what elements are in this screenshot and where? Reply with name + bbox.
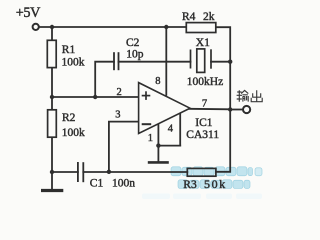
- svg-text:R1: R1: [62, 44, 76, 56]
- wire crystal right to rail: [211, 61, 230, 63]
- node pin2 C2: [93, 95, 97, 99]
- svg-text:+5V: +5V: [16, 5, 41, 21]
- capacitor C2: [114, 52, 119, 70]
- node ground left: [50, 170, 54, 174]
- svg-text:X1: X1: [196, 37, 210, 49]
- svg-text:C1: C1: [90, 177, 104, 189]
- wire right ground stem: [157, 146, 159, 162]
- watermark row 2: [178, 180, 250, 189]
- wire C2 to crystal (feedback node): [118, 61, 190, 63]
- resistor R2: [48, 110, 57, 137]
- wire C1 right to R3: [83, 171, 187, 173]
- node pin2 R1 R2: [50, 95, 54, 99]
- resistor R4: [186, 23, 216, 33]
- watermark row 3: [142, 194, 262, 200]
- svg-text:10p: 10p: [126, 49, 144, 61]
- capacitor C1: [78, 162, 83, 182]
- svg-text:IC1: IC1: [195, 117, 213, 129]
- svg-text:R4: R4: [182, 11, 196, 23]
- wire R2 top: [51, 97, 53, 110]
- svg-text:100kHz: 100kHz: [187, 76, 223, 88]
- svg-text:7: 7: [202, 98, 207, 109]
- svg-text:2k: 2k: [203, 11, 215, 23]
- char shu 输: [237, 90, 249, 102]
- char chu 出: [251, 90, 262, 101]
- svg-text:100k: 100k: [62, 127, 85, 139]
- wire pin 1: [157, 124, 159, 146]
- wire pin 8 to +5V rail: [165, 27, 167, 95]
- wire ground node to C1: [52, 171, 78, 173]
- ground right: [148, 161, 169, 164]
- crystal X1: [191, 49, 212, 73]
- svg-text:4: 4: [168, 124, 174, 135]
- svg-text:100n: 100n: [112, 177, 135, 189]
- terminal +5V: [33, 24, 39, 30]
- label output (Chinese 输出): [237, 90, 263, 102]
- svg-text:C2: C2: [126, 37, 140, 49]
- svg-text:2: 2: [117, 87, 122, 98]
- wire pin 3 input: [109, 122, 139, 172]
- watermark row 1: [171, 167, 262, 176]
- wire pin1 to pin4: [158, 145, 180, 147]
- svg-text:50k: 50k: [204, 177, 227, 191]
- wire R1 top: [51, 27, 53, 40]
- wire pin 2 input: [52, 96, 139, 98]
- wire top rail +5V: [39, 26, 187, 28]
- wire left ground stem: [51, 172, 53, 189]
- svg-text:R2: R2: [62, 112, 76, 124]
- wire C2 left branch down to pin 2 node: [95, 62, 114, 97]
- wire R4 to right rail corner: [216, 27, 230, 172]
- resistor R1: [47, 40, 56, 67]
- svg-text:CA311: CA311: [186, 129, 219, 141]
- svg-text:100k: 100k: [62, 56, 85, 68]
- node crystal rail: [228, 60, 232, 64]
- wire pin 7 output to rail: [190, 108, 231, 111]
- node pin3 C1 R3: [107, 170, 111, 174]
- wire output terminal: [230, 109, 243, 111]
- wire R1 bottom to pin 2 node: [51, 68, 53, 97]
- resistor R3: [187, 168, 216, 176]
- wire R2 bottom to ground node: [51, 137, 53, 172]
- terminal output: [243, 106, 250, 113]
- svg-text:8: 8: [155, 76, 160, 87]
- svg-text:1: 1: [148, 133, 153, 144]
- node pin1 pin4: [156, 143, 160, 147]
- svg-text:R3: R3: [183, 179, 197, 191]
- ground left: [41, 189, 63, 192]
- op-amp plus input sign: [142, 91, 151, 100]
- node pin7 rail: [228, 107, 232, 111]
- op-amp minus input sign: [142, 123, 152, 125]
- node R1 top rail: [50, 25, 54, 29]
- node pin8 rail: [164, 25, 168, 29]
- svg-text:3: 3: [115, 110, 120, 121]
- wire pin 4: [179, 113, 181, 146]
- op-amp U1 CA311 triangle: [139, 83, 190, 134]
